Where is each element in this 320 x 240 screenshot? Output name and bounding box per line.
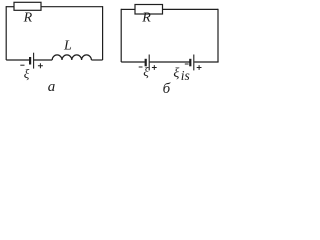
wire: circuit b left side (120, 9, 122, 62)
battery E3 minus sign (185, 63, 189, 65)
svg-text:б: б (163, 81, 171, 95)
wire: circuit a battery-to-inductor segment (34, 59, 53, 61)
svg-text:R: R (23, 10, 33, 25)
battery E1 negative plate (short thick) (29, 57, 31, 65)
battery E1 positive plate (long thin) (33, 53, 35, 69)
wire: circuit a right side (102, 6, 104, 60)
svg-text:ξis: ξis (173, 66, 189, 83)
svg-text:L: L (63, 38, 72, 53)
battery E2 plus sign (152, 65, 157, 70)
svg-text:a: a (48, 79, 56, 95)
wire: circuit a bottom-right segment (91, 59, 102, 61)
battery E2 minus sign (139, 66, 143, 68)
battery E3 plus sign (197, 65, 202, 70)
wire: circuit a top-right segment (41, 6, 103, 8)
battery E1 minus sign (20, 64, 24, 66)
wire: circuit b right side (217, 9, 219, 62)
battery E1 plus sign (38, 63, 43, 68)
svg-text:R: R (141, 11, 151, 26)
resistor R (circuit b) (135, 5, 163, 15)
wire: circuit b between-batteries segment (150, 61, 190, 63)
inductor L (circuit a, 4 arcs) (52, 55, 91, 60)
svg-text:ξ: ξ (24, 66, 30, 81)
resistor R (circuit a) (14, 2, 41, 10)
battery E3 negative plate (short thick) (189, 59, 191, 67)
wire: circuit b bottom-right segment (194, 61, 218, 63)
battery E3 positive plate (long thin) (193, 55, 195, 71)
battery E2 positive plate (long thin) (148, 55, 150, 71)
wire: circuit a bottom-left segment (6, 59, 29, 61)
wire: circuit a left side (5, 6, 7, 60)
svg-text:ξ: ξ (143, 64, 149, 79)
wire: circuit b top-right segment (163, 8, 219, 10)
wire: circuit b bottom-left segment (121, 61, 145, 63)
battery E2 negative plate (short thick) (145, 59, 147, 67)
wire: circuit b top-left stub (121, 8, 135, 10)
wire: circuit a top-left stub (6, 6, 14, 8)
